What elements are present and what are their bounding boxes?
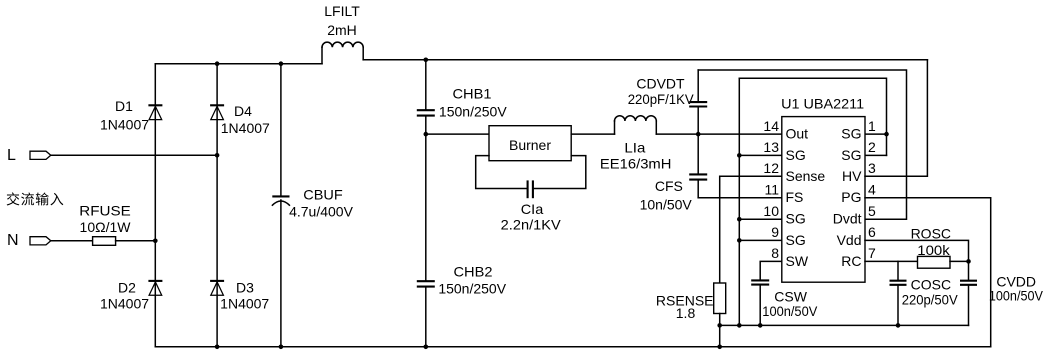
wire LIa to pin 14 Out — [656, 133, 782, 135]
wire top-left rail (bridge + to LFILT) — [155, 63, 322, 65]
svg-text:LFILT: LFILT — [324, 3, 360, 19]
svg-text:8: 8 — [771, 245, 779, 261]
wire bottom rail — [155, 346, 990, 348]
capacitor CIa 2.2n/1KV (parallel loop) — [476, 156, 586, 233]
svg-text:7: 7 — [868, 245, 876, 261]
junction SG column / pin 9 — [737, 238, 742, 243]
svg-text:CBUF: CBUF — [303, 187, 343, 203]
diode D4 1N4007 — [210, 103, 270, 136]
wire left bridge column (D1/D2 leg) — [154, 64, 156, 347]
svg-text:SG: SG — [786, 211, 806, 227]
wire Vdd net (pin 6 to RC node) — [865, 240, 969, 261]
svg-text:150n/250V: 150n/250V — [438, 281, 506, 297]
pin 1 SG (right) — [841, 118, 876, 142]
svg-text:6: 6 — [868, 224, 876, 240]
svg-text:PG: PG — [841, 189, 861, 205]
svg-text:5: 5 — [868, 203, 876, 219]
junction top rail / CBUF column — [279, 61, 284, 66]
junction bottom rail / D3 column — [215, 345, 220, 350]
svg-text:ROSC: ROSC — [911, 226, 951, 242]
svg-text:220p/50V: 220p/50V — [902, 292, 959, 308]
junction CHB column / burner wire (half-bridge node) — [424, 132, 429, 137]
wire L line to bridge — [51, 154, 218, 156]
junction L line / D4 column — [215, 153, 220, 158]
svg-text:4.7u/400V: 4.7u/400V — [289, 204, 353, 220]
svg-text:12: 12 — [763, 160, 779, 176]
svg-text:SG: SG — [786, 147, 806, 163]
wire right bridge column (D4/D3 leg) — [216, 64, 218, 347]
wire N line connector to fuse — [51, 240, 93, 242]
node L (live input terminal) — [7, 147, 51, 164]
svg-text:1N4007: 1N4007 — [221, 120, 270, 136]
junction N line / D1 column — [153, 239, 158, 244]
pin 9 SG (left) — [771, 224, 806, 248]
wire FS net (CFS bottom to pin 11) — [698, 197, 782, 199]
wire Dvdt net (CDVDT top to pin 5) — [698, 70, 906, 219]
lamp Burner (block) — [489, 126, 571, 161]
svg-text:Dvdt: Dvdt — [833, 211, 862, 227]
svg-text:10Ω/1W: 10Ω/1W — [80, 219, 132, 235]
pin 6 Vdd (right) — [837, 224, 876, 248]
svg-text:N: N — [7, 232, 19, 249]
capacitor CHB1 150n/250V — [417, 60, 508, 134]
svg-text:RFUSE: RFUSE — [79, 203, 131, 219]
svg-text:FS: FS — [786, 189, 804, 205]
diode D3 1N4007 — [210, 280, 269, 312]
svg-text:CDVDT: CDVDT — [636, 76, 685, 92]
svg-text:1.8: 1.8 — [676, 305, 696, 321]
svg-text:SW: SW — [786, 253, 809, 269]
resistor RSENSE 1.8 — [656, 283, 726, 321]
junction COSC / bus — [896, 323, 901, 328]
inductor LFILT 2mH — [322, 3, 363, 64]
capacitor COSC 220p/50V — [890, 261, 959, 325]
resistor RFUSE — [79, 203, 131, 246]
svg-text:14: 14 — [763, 118, 779, 134]
wire burner to LIa — [571, 133, 614, 135]
wire pin 10 SG stub — [739, 218, 782, 220]
svg-text:1N4007: 1N4007 — [100, 117, 149, 133]
node N (neutral input terminal) — [7, 232, 51, 249]
junction bottom rail / CBUF column — [279, 345, 284, 350]
inductor LIa EE16/3mH — [600, 116, 672, 172]
junction RSENSE / small-signal bus — [717, 323, 722, 328]
wire pin 1 SG stub — [865, 133, 887, 135]
svg-text:D1: D1 — [115, 98, 133, 114]
junction top rail / CHB column — [424, 58, 429, 63]
pin 5 Dvdt (right) — [833, 203, 876, 227]
capacitor CFS 10n/50V — [640, 134, 708, 212]
junction SG right column / pin 1 — [884, 132, 889, 137]
svg-text:CIa: CIa — [521, 201, 544, 217]
junction CSW / bus — [758, 323, 763, 328]
svg-text:SG: SG — [841, 147, 861, 163]
svg-text:2: 2 — [868, 139, 876, 155]
svg-text:2.2n/1KV: 2.2n/1KV — [501, 217, 562, 233]
svg-text:Burner: Burner — [509, 137, 551, 153]
wire RSENSE bottom to ground bus and rail — [719, 314, 721, 347]
junction SG column / pin 13 — [737, 153, 742, 158]
pin 8 SW (left) — [771, 245, 809, 269]
svg-text:13: 13 — [763, 139, 779, 155]
capacitor CBUF 4.7u/400V (electrolytic) — [272, 64, 353, 347]
svg-text:Sense: Sense — [786, 168, 826, 184]
wire ROSC to Vdd/CVDD node — [950, 260, 969, 262]
svg-text:9: 9 — [771, 224, 779, 240]
capacitor CHB2 150n/250V — [417, 134, 507, 347]
svg-text:100n/50V: 100n/50V — [762, 303, 818, 319]
svg-text:COSC: COSC — [911, 277, 951, 293]
capacitor CVDD 100n/50V — [960, 261, 1043, 325]
pin 3 HV (right) — [842, 160, 876, 184]
wire small-signal ground bus — [720, 324, 969, 326]
wire HV net (top rail to pin 3) — [865, 60, 927, 177]
svg-text:CFS: CFS — [655, 178, 683, 194]
junction RSENSE leg / bottom rail — [717, 345, 722, 350]
svg-text:U1 UBA2211: U1 UBA2211 — [781, 96, 864, 112]
wire pin 2 SG stub — [865, 154, 887, 156]
svg-text:4: 4 — [868, 182, 876, 198]
junction SG column / bus — [737, 323, 742, 328]
label AC input (交流输入) — [7, 192, 64, 205]
svg-text:220pF/1KV: 220pF/1KV — [628, 91, 695, 107]
svg-text:11: 11 — [764, 182, 779, 198]
diode D2 1N4007 — [100, 280, 162, 312]
junction bottom rail / CHB column — [424, 345, 429, 350]
wire half-bridge node to burner — [426, 133, 489, 135]
wire RC net (pin 7 to ROSC) — [865, 260, 918, 262]
junction top rail / D4 column — [215, 61, 220, 66]
svg-text:LIa: LIa — [624, 140, 645, 156]
wire top DC rail (LFILT to HV corner) — [363, 59, 927, 61]
op-amp U1 UBA2211 (IC body) — [781, 96, 865, 283]
svg-text:100k: 100k — [917, 242, 951, 258]
svg-text:1N4007: 1N4007 — [100, 296, 149, 312]
wire SG net top (over IC to pins 1,2) — [739, 78, 886, 155]
svg-text:CHB1: CHB1 — [453, 86, 492, 102]
capacitor CDVDT 220pF/1KV — [628, 70, 708, 134]
pin 2 SG (right) — [841, 139, 876, 163]
junction SG column / pin 10 — [737, 217, 742, 222]
svg-text:1N4007: 1N4007 — [220, 296, 269, 312]
svg-text:1: 1 — [868, 118, 876, 134]
svg-text:2mH: 2mH — [327, 22, 357, 38]
diode D1 1N4007 — [100, 98, 162, 133]
pin 10 SG (left) — [763, 203, 805, 227]
pin 13 SG (left) — [763, 139, 805, 163]
svg-text:EE16/3mH: EE16/3mH — [600, 156, 672, 172]
svg-text:10: 10 — [763, 203, 779, 219]
wire SG net left column — [738, 78, 740, 325]
svg-text:Vdd: Vdd — [837, 232, 862, 248]
wire PG net (pin 4 to bottom rail) — [865, 198, 991, 347]
pin 12 Sense (left) — [763, 160, 825, 184]
wire SW net (pin 8 to CSW) — [760, 261, 782, 280]
junction Out wire / CDVDT-CFS column — [696, 132, 701, 137]
svg-text:D3: D3 — [236, 280, 254, 296]
svg-text:D2: D2 — [118, 280, 136, 296]
svg-text:3: 3 — [868, 160, 876, 176]
wire fuse to bridge node — [116, 240, 156, 242]
wire Sense net (pin 12 to RSENSE) — [720, 176, 782, 283]
svg-text:SG: SG — [841, 126, 861, 142]
svg-text:Out: Out — [786, 126, 809, 142]
wire pin 13 SG stub — [739, 154, 782, 156]
svg-text:L: L — [7, 147, 16, 164]
svg-text:150n/250V: 150n/250V — [439, 104, 507, 120]
wire pin 9 SG stub — [739, 239, 782, 241]
junction ROSC / Vdd / CVDD node — [966, 259, 971, 264]
pin 4 PG (right) — [841, 182, 876, 206]
resistor ROSC 100k — [911, 226, 951, 269]
pin 7 RC (right) — [841, 245, 876, 269]
svg-text:CHB2: CHB2 — [454, 264, 493, 280]
pin 14 Out (left) — [763, 118, 808, 142]
pin 11 FS (left) — [764, 182, 803, 206]
svg-text:SG: SG — [786, 232, 806, 248]
capacitor CSW 100n/50V — [751, 280, 818, 325]
svg-text:HV: HV — [842, 168, 862, 184]
svg-text:100n/50V: 100n/50V — [989, 288, 1044, 304]
svg-text:10n/50V: 10n/50V — [640, 197, 693, 213]
svg-text:D4: D4 — [234, 103, 252, 119]
svg-text:RC: RC — [841, 253, 861, 269]
